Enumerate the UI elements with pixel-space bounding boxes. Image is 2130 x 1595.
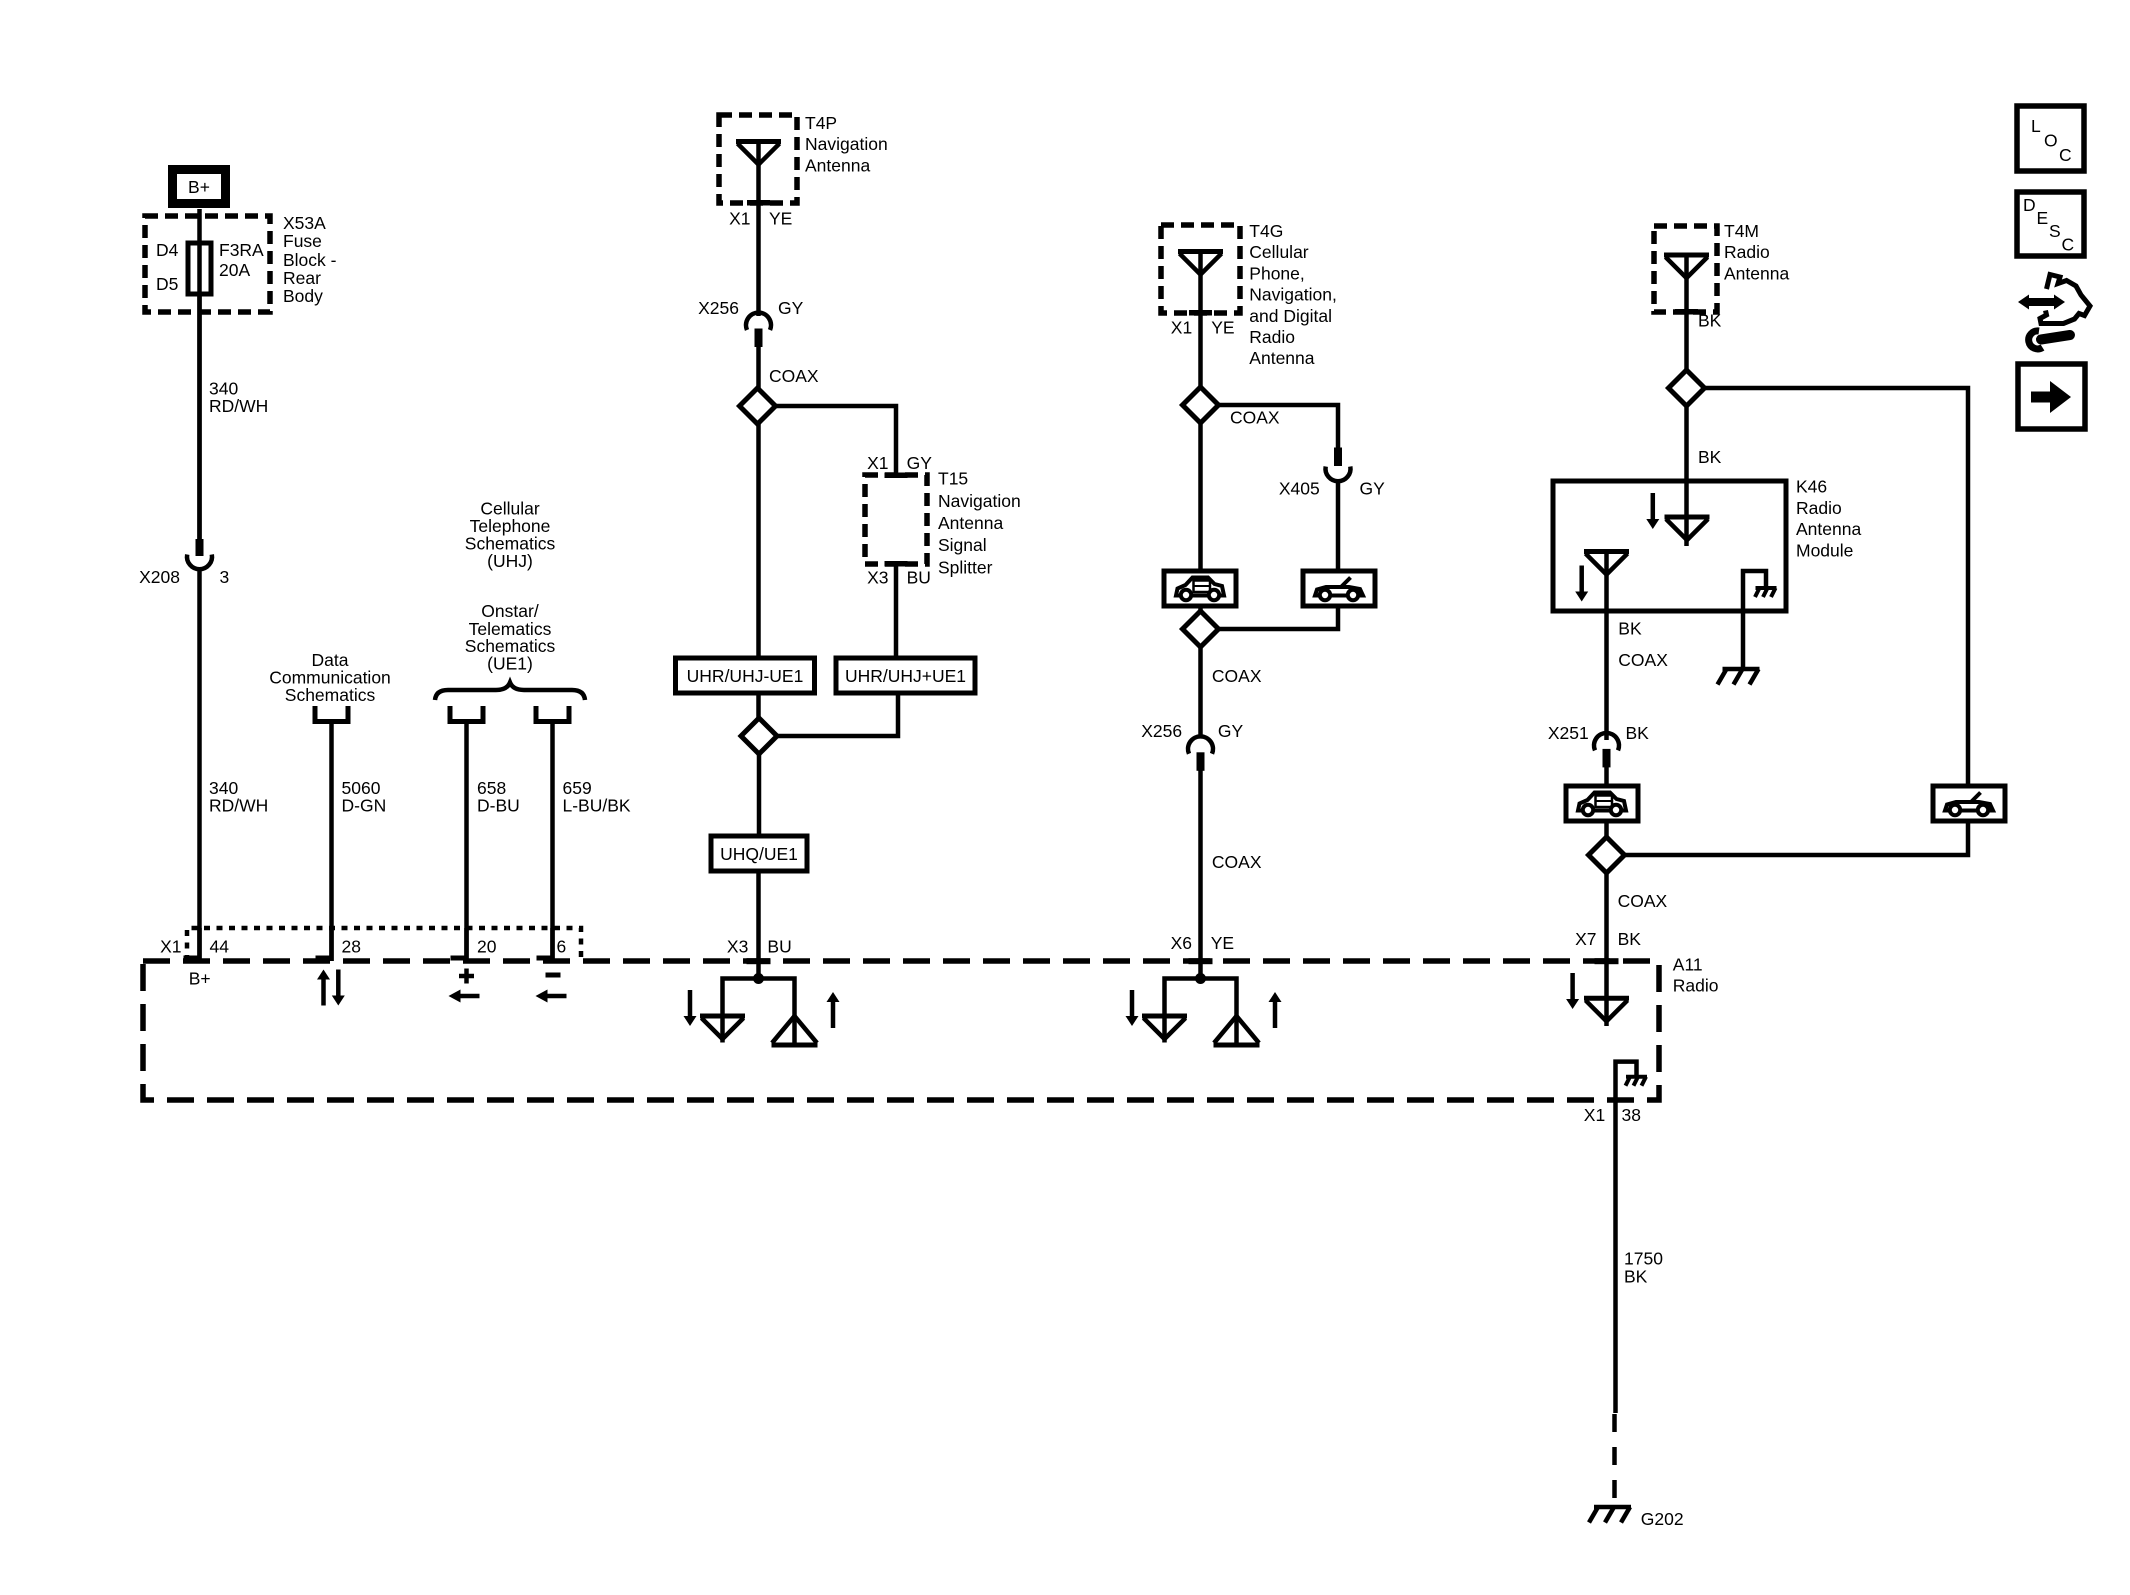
pin stub T4M [1675, 309, 1698, 315]
wire antenna feed T4M [1684, 253, 1689, 372]
svg-text:Splitter: Splitter [938, 557, 993, 577]
svg-text:BK: BK [1698, 311, 1722, 331]
wire X405 to convertible option [1336, 481, 1341, 571]
svg-text:C: C [2059, 145, 2072, 165]
svg-text:YE: YE [769, 209, 792, 229]
svg-text:E: E [2037, 208, 2049, 228]
brace over onstar brackets [435, 683, 585, 701]
ground symbol below K46 [1718, 669, 1760, 685]
wire convertible box to diamond branch (T4M lower) [1625, 821, 1969, 855]
svg-text:BU: BU [767, 936, 791, 956]
svg-text:D-GN: D-GN [342, 795, 387, 815]
ground symbol inside radio [1616, 1062, 1648, 1100]
wire diamond 2 to UHQ box [757, 754, 762, 836]
antenna symbol T4P [736, 142, 781, 165]
svg-text:BU: BU [907, 567, 931, 587]
label K46 Radio Antenna Module [1796, 477, 1861, 561]
wire X3 pin into radio [756, 961, 761, 979]
svg-text:X7: X7 [1575, 929, 1596, 949]
wire UHR+ box to splice diamond 2 branch [777, 693, 898, 736]
svg-text:X3: X3 [727, 936, 748, 956]
arrow down (K46 input) [1646, 493, 1659, 529]
off-page bracket onstar wire 658 [450, 706, 483, 722]
svg-text:28: 28 [342, 936, 361, 956]
connector X208 pin 3 [187, 539, 212, 569]
pin 28 terminal [316, 928, 332, 961]
junction node X3 [753, 973, 764, 984]
svg-text:X53A: X53A [283, 213, 326, 233]
svg-text:Navigation: Navigation [938, 491, 1021, 511]
svg-text:Body: Body [283, 286, 323, 306]
power symbol B+ [173, 170, 226, 204]
svg-text:Rear: Rear [283, 268, 321, 288]
svg-text:COAX: COAX [1618, 650, 1668, 670]
wire X6 pin into radio [1198, 961, 1203, 979]
svg-text:X1: X1 [1584, 1105, 1605, 1125]
svg-text:B+: B+ [188, 177, 210, 197]
wire fuse to X208 [197, 294, 202, 540]
wire antenna feed T4P [756, 139, 761, 316]
wire T4G diamond to coupe option [1198, 423, 1203, 571]
vehicle option box convertible (T4M) [1933, 786, 2005, 821]
splice diamond T4G upper [1183, 387, 1219, 423]
svg-text:BK: BK [1618, 929, 1642, 949]
wire label 658 D-BU [477, 778, 520, 816]
svg-text:Antenna: Antenna [1796, 519, 1861, 539]
label T4P Navigation Antenna [805, 113, 888, 176]
pin stub T4P X1 [747, 200, 770, 206]
svg-text:3: 3 [220, 567, 230, 587]
label A11 Radio [1673, 955, 1719, 996]
svg-text:38: 38 [1622, 1105, 1641, 1125]
splice diamond T4M [1669, 370, 1705, 406]
svg-text:Radio: Radio [1249, 327, 1295, 347]
svg-text:K46: K46 [1796, 477, 1827, 497]
connector strip X1 dotted [187, 928, 581, 961]
cellular antenna T4G dashed box [1161, 225, 1240, 313]
svg-text:(UE1): (UE1) [487, 654, 533, 674]
svg-text:D4: D4 [156, 240, 179, 260]
svg-text:BK: BK [1624, 1267, 1648, 1287]
off-page bracket onstar wire 659 [536, 706, 569, 722]
svg-text:X3: X3 [867, 567, 888, 587]
svg-text:44: 44 [210, 936, 230, 956]
svg-text:L: L [2031, 116, 2041, 136]
svg-text:Cellular: Cellular [1249, 242, 1308, 262]
junction node X6 [1195, 973, 1206, 984]
fuse block X53A dashed box [145, 216, 270, 312]
pin stub X3 at radio edge [747, 958, 771, 964]
wire T15 to UHR/UHJ+UE1 [894, 564, 899, 658]
svg-text:20A: 20A [219, 260, 250, 280]
receive antenna symbol (X7) [1584, 998, 1629, 1026]
wire label 659 L-BU/BK [563, 778, 631, 816]
label T15 Navigation Antenna Signal Splitter [938, 469, 1021, 578]
wire antenna feed T4G [1198, 249, 1203, 388]
svg-text:Module: Module [1796, 540, 1853, 560]
icon box DESC [2017, 192, 2084, 256]
option box UHR/UHJ+UE1 [836, 658, 975, 693]
wire label 340 RD/WH upper [209, 379, 268, 417]
ground symbol inside K46 [1743, 571, 1777, 667]
antenna symbol T4G [1178, 252, 1223, 275]
svg-text:(UHJ): (UHJ) [487, 551, 533, 571]
svg-text:Phone,: Phone, [1249, 263, 1304, 283]
svg-text:GY: GY [907, 453, 933, 473]
splice diamond T4G lower [1183, 611, 1219, 647]
svg-text:COAX: COAX [1212, 852, 1262, 872]
wire branch to transmit antenna (X6) [1201, 979, 1237, 1017]
wire dashed to G202 [1612, 1414, 1617, 1507]
antenna symbol inside K46 (output) [1584, 552, 1629, 575]
navigation antenna T4P dashed box [719, 115, 797, 203]
pin stub T15 top [885, 473, 908, 479]
svg-text:S: S [2049, 221, 2061, 241]
wire X256 to radio pin X6 [1198, 769, 1203, 963]
svg-text:D5: D5 [156, 274, 178, 294]
svg-text:1750: 1750 [1624, 1248, 1663, 1268]
fuse value label F3RA 20A [219, 240, 264, 280]
wire coupe box to diamond (T4M lower) [1604, 821, 1609, 838]
connector X405 [1326, 448, 1351, 482]
fuse F3RA 20A [188, 243, 211, 294]
arrow up (X6 transmit) [1269, 992, 1282, 1028]
wire UHR- box to splice diamond 2 [756, 693, 761, 719]
ground G202 [1589, 1507, 1631, 1523]
arrow left at pin 20 [449, 990, 480, 1003]
off-page bracket data communication [315, 706, 348, 722]
svg-text:UHR/UHJ-UE1: UHR/UHJ-UE1 [687, 666, 804, 686]
svg-text:GY: GY [1218, 721, 1244, 741]
wire branch T4M diamond to convertible (right) [1705, 388, 1969, 571]
pin stub T15 bottom [885, 561, 908, 567]
wire branch right vertical to convertible box [1966, 571, 1971, 786]
svg-text:Navigation: Navigation [805, 134, 888, 154]
svg-text:Antenna: Antenna [805, 156, 870, 176]
svg-text:COAX: COAX [769, 366, 819, 386]
option box UHR/UHJ-UE1 [676, 658, 815, 693]
svg-text:COAX: COAX [1618, 891, 1668, 911]
svg-text:X256: X256 [1141, 721, 1182, 741]
svg-text:A11: A11 [1673, 955, 1703, 975]
svg-text:20: 20 [477, 936, 497, 956]
wire K46 input antenna feed [1684, 481, 1689, 546]
wire convertible box to diamond lower branch [1219, 606, 1339, 629]
svg-text:UHQ/UE1: UHQ/UE1 [720, 844, 798, 864]
wire branch to receive antenna (X3) [723, 979, 759, 1017]
svg-text:Radio: Radio [1724, 242, 1770, 262]
wire radio ground pin X1 38 [1613, 1100, 1618, 1413]
wire X256 to splice diamond [756, 345, 761, 389]
svg-text:X256: X256 [698, 298, 739, 318]
svg-text:BK: BK [1698, 447, 1722, 467]
svg-text:Antenna: Antenna [1724, 263, 1789, 283]
svg-text:Antenna: Antenna [1249, 348, 1314, 368]
label X53A Fuse Block - Rear Body [283, 213, 337, 306]
arrow down (X6 receive) [1126, 990, 1139, 1026]
pin 44 terminal [184, 928, 200, 961]
wire diamond lower to X256 [1198, 647, 1203, 738]
svg-text:RD/WH: RD/WH [209, 795, 268, 815]
svg-text:D: D [2023, 195, 2036, 215]
receive antenna symbol (X3) [700, 1016, 745, 1043]
wire B+ to fuse [197, 209, 202, 540]
module K46 box [1553, 481, 1786, 611]
minus sign at pin 6 [546, 973, 561, 978]
svg-text:T4G: T4G [1249, 221, 1283, 241]
icon box arrow [2018, 364, 2085, 429]
arrow up-down pair at pin 28 [317, 970, 345, 1006]
svg-text:6: 6 [557, 936, 567, 956]
wire coupe box to diamond lower [1198, 606, 1203, 612]
vehicle option box coupe (T4M) [1566, 786, 1638, 821]
wire K46 output antenna to X251 [1604, 552, 1609, 741]
svg-text:F3RA: F3RA [219, 240, 264, 260]
svg-text:X1: X1 [1171, 317, 1192, 337]
icon box LOC [2017, 106, 2084, 171]
connector X251 [1594, 733, 1619, 767]
splice diamond nav 2 [741, 718, 777, 754]
pin stub X6 at radio edge [1189, 958, 1213, 964]
wire T4M diamond to K46 [1684, 406, 1689, 481]
label Data Communication Schematics [269, 650, 391, 705]
arrow down (K46 output) [1575, 566, 1588, 602]
arrow down (X7 receive) [1566, 973, 1579, 1009]
wire branch to transmit antenna (X3) [759, 979, 795, 1017]
svg-text:GY: GY [1360, 479, 1386, 499]
svg-text:C: C [2062, 235, 2075, 255]
receive antenna symbol (X6) [1142, 1016, 1187, 1043]
svg-text:X1: X1 [867, 453, 888, 473]
svg-text:BK: BK [1618, 619, 1642, 639]
splice diamond T4M lower [1589, 837, 1625, 873]
svg-text:COAX: COAX [1230, 408, 1280, 428]
wire 658 D-BU to pin 20 [464, 722, 469, 962]
transmit antenna symbol (X3) [772, 1016, 818, 1045]
svg-text:Block -: Block - [283, 250, 337, 270]
svg-text:T4M: T4M [1724, 221, 1759, 241]
splice diamond nav 1 [740, 388, 776, 424]
svg-text:BK: BK [1626, 723, 1650, 743]
pin 20 terminal [451, 928, 467, 961]
antenna symbol inside K46 (input) [1665, 517, 1710, 540]
svg-text:L-BU/BK: L-BU/BK [563, 795, 631, 815]
wire 659 L-BU/BK to pin 6 [550, 722, 555, 962]
svg-text:Radio: Radio [1796, 498, 1842, 518]
svg-text:G202: G202 [1641, 1509, 1684, 1529]
pin stub T4G X1 [1189, 310, 1212, 316]
splitter T15 dashed box [865, 475, 927, 564]
label T4G Cellular Phone Navigation and Digital Radio Antenna [1249, 221, 1337, 368]
icon harness routing (arrows and wrench) [2018, 275, 2090, 349]
svg-text:UHR/UHJ+UE1: UHR/UHJ+UE1 [845, 666, 966, 686]
wire through fuse [197, 243, 202, 294]
svg-text:COAX: COAX [1212, 666, 1262, 686]
plus sign at pin 20 [459, 969, 474, 984]
label Onstar/Telematics Schematics (UE1) [465, 601, 556, 674]
svg-text:Radio: Radio [1673, 975, 1719, 995]
svg-text:X1: X1 [160, 936, 181, 956]
svg-text:D-BU: D-BU [477, 795, 520, 815]
svg-text:Fuse: Fuse [283, 231, 322, 251]
option box UHQ/UE1 [711, 836, 807, 871]
wire X251 to coupe box [1604, 766, 1609, 786]
wire branch diamond to T15 [776, 406, 897, 476]
radio antenna T4M dashed box [1654, 226, 1717, 312]
antenna symbol T4M [1664, 255, 1709, 278]
wire 5060 D-GN to pin 28 [329, 722, 334, 962]
wire label 5060 D-GN [342, 778, 387, 816]
svg-text:B+: B+ [189, 969, 211, 989]
svg-text:O: O [2044, 131, 2058, 151]
arrow down (X3 receive) [684, 990, 697, 1026]
label T4M Radio Antenna [1724, 221, 1789, 283]
svg-text:X6: X6 [1171, 933, 1192, 953]
svg-text:GY: GY [778, 298, 804, 318]
wire diamond to radio pin X7 [1604, 873, 1609, 998]
wire nav diamond to UHR/UHJ-UE1 [756, 424, 761, 658]
wire label 1750 BK [1624, 1248, 1663, 1286]
label Cellular Telephone Schematics (UHJ) [465, 498, 556, 571]
pin 6 terminal [537, 928, 553, 961]
wire UHQ box to radio pin X3 [756, 871, 761, 963]
wire X208 to radio pin 44 [197, 569, 202, 961]
svg-text:X1: X1 [729, 209, 750, 229]
svg-text:T15: T15 [938, 469, 968, 489]
svg-text:RD/WH: RD/WH [209, 396, 268, 416]
transmit antenna symbol (X6) [1214, 1016, 1260, 1045]
wire branch to receive antenna (X6) [1165, 979, 1201, 1017]
vehicle option box convertible (T4G) [1303, 571, 1375, 606]
arrow left at pin 6 [536, 990, 567, 1003]
svg-text:and Digital: and Digital [1249, 306, 1332, 326]
pin stub X7 at radio edge [1595, 958, 1619, 964]
svg-text:T4P: T4P [805, 113, 837, 133]
svg-text:Navigation,: Navigation, [1249, 285, 1337, 305]
wire label 340 RD/WH lower [209, 778, 268, 816]
connector X256 (cellular) [1188, 736, 1213, 770]
svg-text:X405: X405 [1279, 479, 1320, 499]
svg-text:Antenna: Antenna [938, 513, 1003, 533]
svg-text:X208: X208 [139, 567, 180, 587]
arrow up (X3 transmit) [827, 992, 840, 1028]
svg-text:Signal: Signal [938, 535, 987, 555]
vehicle option box coupe (T4G) [1164, 571, 1236, 606]
connector X256 (nav) [746, 313, 771, 347]
svg-text:Schematics: Schematics [285, 685, 376, 705]
svg-text:X251: X251 [1548, 723, 1589, 743]
radio A11 dashed box [143, 961, 1659, 1100]
svg-text:YE: YE [1211, 933, 1234, 953]
svg-text:YE: YE [1211, 317, 1234, 337]
wire branch diamond to X405 [1219, 405, 1339, 453]
